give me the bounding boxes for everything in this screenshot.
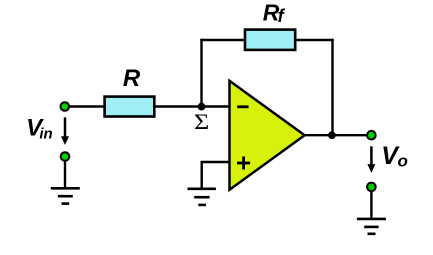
op-amp U1 triangle	[230, 81, 305, 190]
wire output node to ground	[370, 191, 372, 219]
resistor R body	[105, 97, 155, 117]
wire feedback right vertical down to output	[331, 39, 333, 135]
wire feedback left vertical from summing node up	[200, 39, 202, 108]
output ground terminal node (bottom)	[367, 183, 376, 192]
wire input node to ground	[64, 160, 66, 188]
input ground terminal node (bottom)	[61, 152, 70, 161]
ground symbol below Vin	[51, 188, 80, 203]
wire feedback top left to Rf	[200, 39, 245, 41]
svg-text:Vin: Vin	[26, 115, 53, 143]
wire feedback top right from Rf	[296, 39, 334, 41]
summing junction dot	[198, 103, 206, 111]
output terminal node (top)	[367, 131, 376, 140]
resistor Rf body	[245, 30, 295, 50]
svg-text:Vo: Vo	[381, 142, 408, 171]
op-amp inverting input minus sign	[237, 105, 248, 108]
svg-text:R: R	[123, 65, 141, 92]
ground symbol below Vo	[357, 219, 386, 234]
wire from resistor R to op-amp inverting input	[154, 105, 229, 107]
wire to op-amp non-inverting input	[202, 162, 230, 189]
input terminal node (top)	[61, 102, 70, 111]
ground symbol at op-amp non-inverting input	[188, 189, 216, 205]
wire op-amp output	[304, 134, 368, 136]
arrow Vo polarity	[367, 146, 375, 173]
wire from Vin node to resistor R	[68, 105, 105, 107]
output feedback junction dot	[328, 131, 336, 139]
svg-text:Rf: Rf	[263, 0, 286, 26]
op-amp non-inverting input plus sign	[237, 157, 250, 170]
svg-text:Σ: Σ	[194, 110, 209, 135]
arrow Vin polarity	[61, 117, 69, 145]
